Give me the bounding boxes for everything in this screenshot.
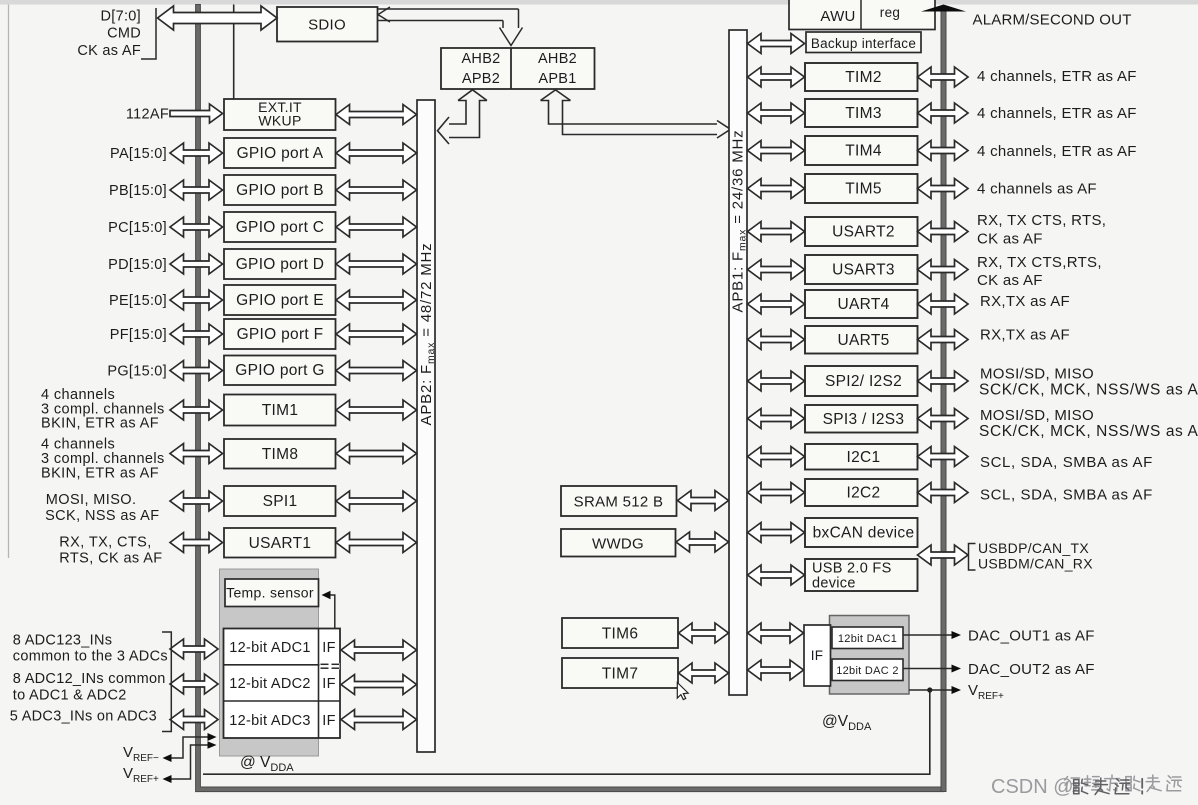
svg-text:UART4: UART4 xyxy=(837,296,889,313)
svg-text:RTS, CK as AF: RTS, CK as AF xyxy=(59,551,162,567)
svg-text:TIM7: TIM7 xyxy=(602,666,639,683)
svg-text:TIM1: TIM1 xyxy=(262,402,299,419)
svg-text:USART2: USART2 xyxy=(832,224,895,241)
svg-text:GPIO port F: GPIO port F xyxy=(237,326,324,343)
svg-text:PG[15:0]: PG[15:0] xyxy=(107,364,167,380)
svg-text:12-bit ADC2: 12-bit ADC2 xyxy=(229,676,310,692)
svg-text:12bit DAC1: 12bit DAC1 xyxy=(838,633,897,645)
svg-text:IF: IF xyxy=(811,648,824,663)
svg-text:I2C1: I2C1 xyxy=(847,449,881,466)
svg-text:APB1: APB1 xyxy=(538,71,576,87)
svg-text:Temp. sensor: Temp. sensor xyxy=(226,585,314,601)
svg-text:SPI1: SPI1 xyxy=(263,493,298,510)
svg-text:4 channels as AF: 4 channels as AF xyxy=(977,181,1097,198)
svg-text:IF: IF xyxy=(322,713,336,729)
svg-text:AWU: AWU xyxy=(820,8,855,25)
svg-text:SDIO: SDIO xyxy=(308,17,346,34)
svg-text:8 ADC123_INs: 8 ADC123_INs xyxy=(13,633,113,649)
svg-text:TIM5: TIM5 xyxy=(845,181,882,198)
svg-text:IF: IF xyxy=(322,676,336,692)
svg-text:GPIO port A: GPIO port A xyxy=(237,145,324,162)
svg-text:TIM3: TIM3 xyxy=(845,105,882,122)
svg-text:RX, TX CTS,RTS,: RX, TX CTS,RTS, xyxy=(977,254,1102,271)
svg-text:GPIO port B: GPIO port B xyxy=(236,182,324,199)
svg-text:GPIO port G: GPIO port G xyxy=(235,362,324,379)
svg-text:TIM4: TIM4 xyxy=(845,143,882,160)
svg-text:I2C2: I2C2 xyxy=(847,485,881,502)
svg-text:CK as AF: CK as AF xyxy=(977,231,1043,248)
svg-text:4 channels, ETR as AF: 4 channels, ETR as AF xyxy=(977,68,1137,85)
svg-text:PB[15:0]: PB[15:0] xyxy=(109,183,167,199)
svg-text:BKIN, ETR as AF: BKIN, ETR as AF xyxy=(41,416,159,432)
svg-text:Backup interface: Backup interface xyxy=(811,36,916,51)
svg-text:PD[15:0]: PD[15:0] xyxy=(108,257,167,273)
svg-text:12-bit ADC3: 12-bit ADC3 xyxy=(229,713,310,729)
svg-text:DAC_OUT1 as AF: DAC_OUT1 as AF xyxy=(968,628,1095,645)
svg-text:APB2: APB2 xyxy=(462,71,500,87)
svg-text:USART3: USART3 xyxy=(832,262,895,279)
svg-text:RX,TX as AF: RX,TX as AF xyxy=(980,327,1070,344)
svg-text:reg: reg xyxy=(880,5,900,20)
svg-text:APB1: Fmax = 24/36 MHz: APB1: Fmax = 24/36 MHz xyxy=(730,130,749,313)
svg-text:SCK, NSS as AF: SCK, NSS as AF xyxy=(45,508,159,524)
svg-text:SCK/CK, MCK, NSS/WS as AF: SCK/CK, MCK, NSS/WS as AF xyxy=(979,382,1198,399)
svg-text:IF: IF xyxy=(322,640,336,656)
svg-text:USART1: USART1 xyxy=(249,535,312,552)
svg-text:RX, TX CTS, RTS,: RX, TX CTS, RTS, xyxy=(977,212,1106,229)
svg-text:GPIO port C: GPIO port C xyxy=(236,219,325,236)
svg-text:CMD: CMD xyxy=(107,26,141,42)
svg-text:common to the 3 ADCs: common to the 3 ADCs xyxy=(13,649,168,665)
svg-text:MOSI/SD, MISO: MOSI/SD, MISO xyxy=(980,366,1094,383)
svg-text:SPI2/ I2S2: SPI2/ I2S2 xyxy=(825,373,902,390)
svg-text:PC[15:0]: PC[15:0] xyxy=(108,220,167,236)
svg-text:ALARM/SECOND OUT: ALARM/SECOND OUT xyxy=(973,12,1132,29)
svg-text:SPI3 / I2S3: SPI3 / I2S3 xyxy=(823,411,905,428)
svg-text:MOSI, MISO.: MOSI, MISO. xyxy=(46,492,137,508)
svg-text:AHB2: AHB2 xyxy=(538,51,577,67)
svg-text:PA[15:0]: PA[15:0] xyxy=(110,146,167,162)
svg-text:RX,TX as AF: RX,TX as AF xyxy=(980,293,1070,310)
svg-text:TIM8: TIM8 xyxy=(262,446,299,463)
svg-text:112AF: 112AF xyxy=(126,107,169,123)
svg-text:CK as AF: CK as AF xyxy=(77,43,141,59)
svg-text:TIM2: TIM2 xyxy=(845,69,882,86)
svg-text:to ADC1 & ADC2: to ADC1 & ADC2 xyxy=(13,688,127,704)
svg-text:BKIN, ETR as AF: BKIN, ETR as AF xyxy=(41,466,159,482)
svg-text:USB 2.0 FS: USB 2.0 FS xyxy=(812,561,892,577)
svg-text:SRAM 512 B: SRAM 512 B xyxy=(574,494,664,511)
svg-text:GPIO port D: GPIO port D xyxy=(236,256,325,273)
svg-text:D[7:0]: D[7:0] xyxy=(101,9,142,25)
svg-text:USBDM/CAN_RX: USBDM/CAN_RX xyxy=(978,556,1093,572)
svg-text:4 channels, ETR as AF: 4 channels, ETR as AF xyxy=(977,143,1137,160)
svg-text:WWDG: WWDG xyxy=(592,536,644,553)
svg-text:TIM6: TIM6 xyxy=(602,626,639,643)
svg-text:12-bit ADC1: 12-bit ADC1 xyxy=(229,640,310,656)
svg-text:CSDN @: CSDN @ xyxy=(991,776,1074,798)
svg-text:UART5: UART5 xyxy=(837,332,889,349)
svg-text:8 ADC12_INs common: 8 ADC12_INs common xyxy=(13,671,166,687)
svg-text:SCL, SDA, SMBA as AF: SCL, SDA, SMBA as AF xyxy=(980,487,1153,504)
svg-text:DAC_OUT2 as AF: DAC_OUT2 as AF xyxy=(968,661,1095,678)
svg-text:12bit DAC 2: 12bit DAC 2 xyxy=(836,665,899,677)
svg-text:bxCAN device: bxCAN device xyxy=(813,525,915,542)
svg-text:AHB2: AHB2 xyxy=(461,51,500,67)
svg-text:4 channels, ETR as AF: 4 channels, ETR as AF xyxy=(977,105,1137,122)
svg-text:USBDP/CAN_TX: USBDP/CAN_TX xyxy=(978,540,1089,556)
svg-text:device: device xyxy=(812,576,856,592)
svg-text:SCL, SDA, SMBA as AF: SCL, SDA, SMBA as AF xyxy=(980,454,1153,471)
svg-text:PE[15:0]: PE[15:0] xyxy=(109,293,167,309)
svg-text:CK as AF: CK as AF xyxy=(977,272,1043,289)
svg-text:APB2: Fmax = 48/72 MHz: APB2: Fmax = 48/72 MHz xyxy=(418,243,437,426)
svg-text:RX, TX, CTS,: RX, TX, CTS, xyxy=(59,535,151,551)
svg-text:MOSI/SD, MISO: MOSI/SD, MISO xyxy=(980,407,1094,424)
svg-text:GPIO port E: GPIO port E xyxy=(236,292,324,309)
svg-text:PF[15:0]: PF[15:0] xyxy=(110,327,167,343)
svg-text:5 ADC3_INs on ADC3: 5 ADC3_INs on ADC3 xyxy=(10,709,157,725)
svg-text:SCK/CK, MCK, NSS/WS as AF: SCK/CK, MCK, NSS/WS as AF xyxy=(979,423,1198,440)
svg-text:WKUP: WKUP xyxy=(258,113,301,129)
